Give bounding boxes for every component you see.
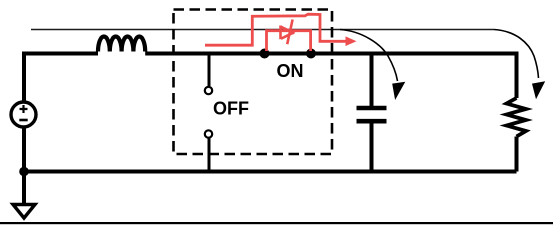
svg-text:ON: ON: [277, 61, 304, 81]
current arrow into load resistor (curved): [494, 30, 545, 100]
red diode branch wires: [267, 31, 311, 51]
resistor R1 (load): [507, 98, 527, 137]
red current path through body diode: [205, 14, 357, 46]
switch contact (lower, open): [205, 130, 212, 137]
wire: right branch bottom: [515, 137, 519, 172]
capacitor C1: [357, 108, 387, 121]
capacitor C1 top lead: [370, 55, 374, 106]
node: bottom-left junction: [19, 167, 29, 177]
ground: [13, 172, 35, 219]
current arrow into capacitor (curved): [340, 30, 405, 101]
switch contact (upper, open): [205, 87, 212, 94]
inductor L1: [98, 36, 145, 51]
switch throw wire (to bottom rail): [208, 139, 211, 172]
wire: thin output current line top: [31, 29, 494, 31]
node: diode anode junction: [260, 49, 270, 59]
capacitor C1 bottom lead: [370, 123, 374, 172]
wire: top rail from source corner to inductor: [24, 52, 98, 56]
wire: top rail from inductor to right corner: [145, 52, 516, 56]
wire: left branch (source leg): [22, 52, 26, 173]
voltage source V1: [11, 102, 36, 127]
switch pole wire (from top rail): [208, 55, 211, 86]
node: diode cathode junction: [306, 49, 316, 59]
wire: bottom rail: [24, 170, 517, 174]
svg-text:OFF: OFF: [213, 99, 249, 119]
diode D1 (red, hand-drawn): [281, 20, 295, 45]
wire: right branch top: [515, 52, 519, 99]
bottom rule: [0, 222, 553, 224]
dashed box (switch network): [174, 10, 333, 155]
